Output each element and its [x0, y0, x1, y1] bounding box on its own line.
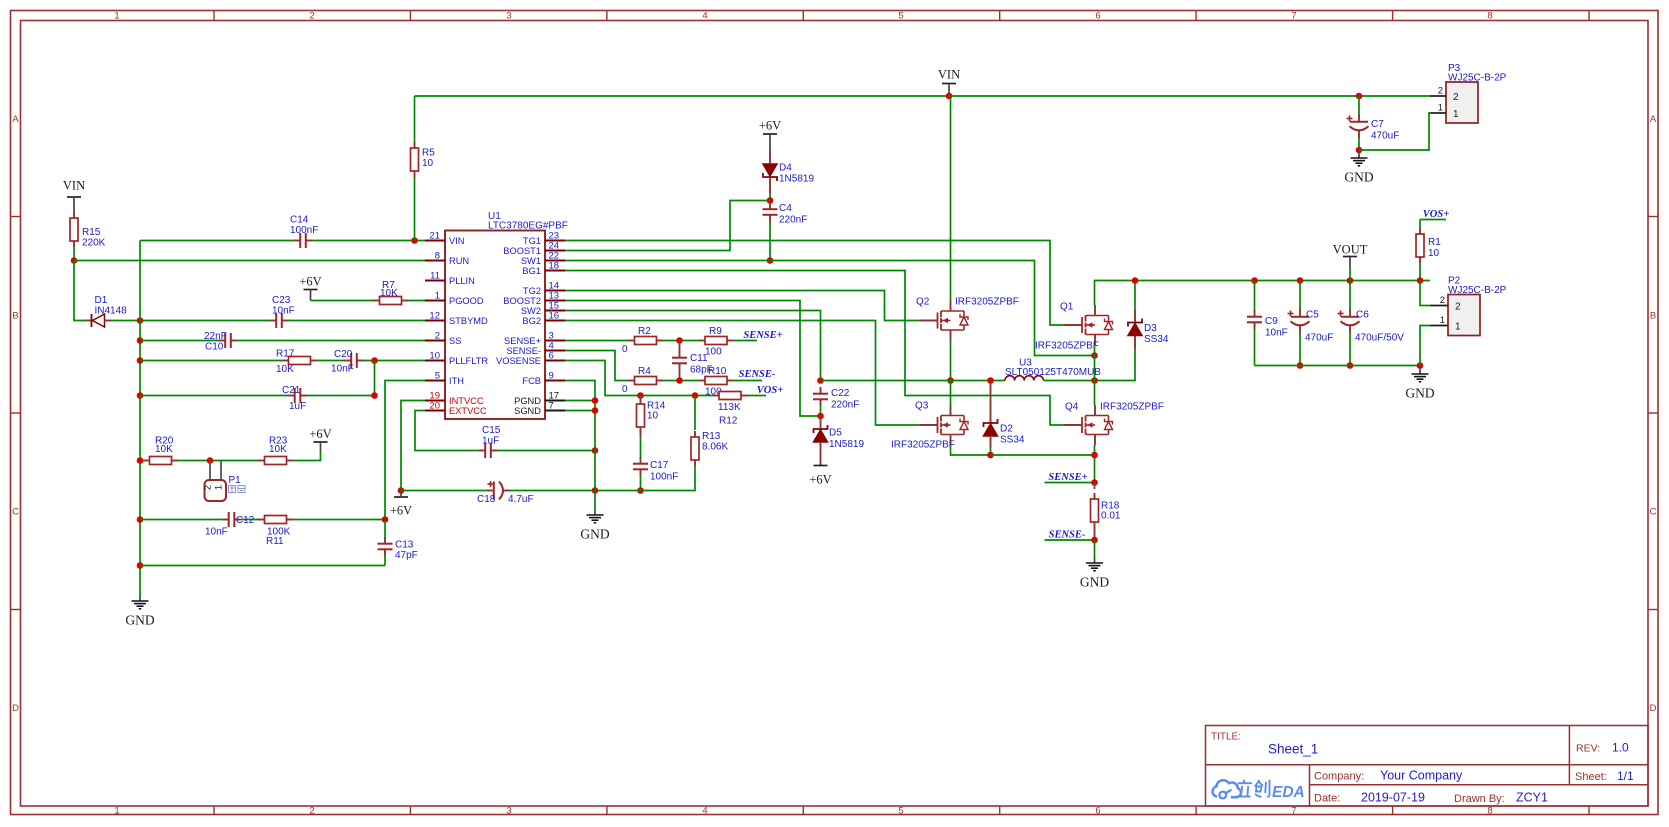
svg-text:ZCY1: ZCY1	[1516, 791, 1548, 805]
svg-text:Q1: Q1	[1060, 302, 1074, 313]
svg-text:R17: R17	[276, 349, 295, 360]
wire BG2 to Q3 gate	[565, 321, 920, 426]
ground symbol GND (C7)	[1344, 152, 1373, 185]
capacitor C9 10nF	[1247, 277, 1288, 365]
capacitor C11 68pF	[672, 341, 713, 381]
svg-text:8.06K: 8.06K	[702, 442, 728, 453]
svg-text:10: 10	[1428, 248, 1440, 259]
node C11 bottom junction	[663, 377, 699, 384]
U1 pin 10 PLLFLTR	[425, 351, 488, 366]
svg-text:D5: D5	[829, 428, 842, 439]
svg-text:+6V: +6V	[809, 473, 831, 487]
svg-text:D1: D1	[95, 295, 108, 306]
wire C21 row	[140, 395, 375, 397]
svg-text:PGND: PGND	[514, 396, 541, 406]
svg-text:5: 5	[898, 806, 903, 817]
node C18/PGND junction	[592, 487, 599, 494]
svg-text:10K: 10K	[380, 288, 398, 299]
transistor Q3 IRF3205ZPBF	[891, 401, 968, 451]
svg-text:10nF: 10nF	[272, 306, 295, 317]
svg-text:2: 2	[1455, 302, 1461, 313]
diode D1 IN4148	[85, 295, 127, 327]
U1 pin 6 VOSENSE	[496, 351, 565, 366]
wire Q2 source to SW node	[950, 341, 952, 381]
node Q4 source junction	[1091, 452, 1098, 459]
wire PLLFLTR row	[140, 360, 425, 362]
svg-text:5: 5	[898, 11, 903, 22]
svg-text:R9: R9	[709, 326, 722, 337]
wire Q1 source down to SW2	[1094, 345, 1096, 405]
svg-text:100nF: 100nF	[290, 225, 318, 236]
svg-text:2: 2	[435, 331, 440, 342]
svg-text:10nF: 10nF	[331, 364, 354, 375]
power flag VIN (top)	[938, 68, 960, 97]
resistor R1 10	[1416, 220, 1441, 281]
svg-text:D2: D2	[1000, 424, 1013, 435]
resistor R14 10	[637, 396, 666, 458]
svg-text:2: 2	[1440, 295, 1445, 306]
svg-text:SS34: SS34	[1000, 435, 1025, 446]
wire inductor right to D3 anode	[1044, 349, 1136, 381]
svg-text:470uF/50V: 470uF/50V	[1355, 333, 1404, 344]
svg-text:EDA: EDA	[1272, 784, 1305, 801]
svg-text:RUN: RUN	[449, 256, 469, 266]
capacitor C5 470uF	[1288, 277, 1334, 369]
svg-text:Q4: Q4	[1065, 402, 1079, 413]
node VIN rail junction	[946, 93, 953, 100]
wire SW2 to C22 top	[565, 311, 821, 381]
node SW row at Q2/Q3	[947, 377, 954, 384]
svg-text:C23: C23	[272, 295, 291, 306]
svg-text:Company:: Company:	[1314, 770, 1364, 782]
svg-text:BOOST2: BOOST2	[503, 296, 541, 306]
svg-text:113K: 113K	[718, 402, 741, 413]
svg-text:GND: GND	[1080, 575, 1109, 590]
node C7 bottom junction	[1356, 147, 1363, 154]
resistor R12 113K	[713, 392, 748, 427]
svg-text:47pF: 47pF	[395, 550, 418, 561]
svg-text:10: 10	[422, 158, 434, 169]
svg-text:2: 2	[203, 485, 214, 490]
diode D5 1N5819	[814, 416, 865, 465]
svg-text:IRF3205ZPBF: IRF3205ZPBF	[891, 440, 955, 451]
capacitor C13 47pF	[378, 520, 418, 566]
node ITH/C13 junction	[382, 516, 389, 523]
svg-text:INTVCC: INTVCC	[449, 396, 484, 406]
svg-text:220K: 220K	[82, 238, 106, 249]
svg-text:Drawn By:: Drawn By:	[1454, 793, 1505, 805]
svg-text:2: 2	[1453, 92, 1459, 103]
U1 pin 21 VIN	[425, 231, 465, 246]
svg-text:VIN: VIN	[938, 68, 960, 82]
svg-text:7: 7	[1291, 11, 1296, 22]
svg-text:STBYMD: STBYMD	[449, 316, 488, 326]
U1 pin 16 BG2	[522, 311, 565, 326]
svg-text:1: 1	[114, 11, 119, 22]
wire VIN to Q2 drain	[950, 96, 952, 301]
svg-text:Your Company: Your Company	[1380, 769, 1463, 783]
node GND rail at PLLFLTR row	[137, 357, 144, 364]
svg-text:10K: 10K	[276, 364, 294, 375]
inductor U3 SLT050125T470MUB	[1005, 358, 1101, 381]
svg-text:100nF: 100nF	[650, 472, 678, 483]
svg-text:3: 3	[506, 806, 511, 817]
node D3 cathode junction	[1132, 277, 1139, 284]
wire C18 row	[401, 490, 659, 492]
node C21 right junction	[371, 392, 378, 399]
U1 pin 17 PGND	[514, 391, 565, 406]
svg-text:470uF: 470uF	[1305, 333, 1333, 344]
wire BOOST2 to C22 bottom	[565, 301, 821, 417]
svg-text:Date:: Date:	[1314, 793, 1340, 805]
transistor Q2 IRF3205ZPBF	[916, 297, 1019, 341]
wire VIN pin row with C14	[140, 240, 425, 242]
node R13 top junction	[692, 392, 699, 399]
wire VIN top rail	[415, 95, 1431, 97]
wire Q3 source to bottom row	[951, 445, 991, 455]
svg-text:12: 12	[429, 311, 440, 322]
wire SW row to inductor	[821, 380, 1006, 382]
svg-text:VOS+: VOS+	[1423, 209, 1449, 220]
svg-text:10K: 10K	[155, 444, 173, 455]
wire INTVCC down to +6V node	[401, 401, 425, 491]
power flag +6V (PGOOD)	[299, 275, 321, 301]
node D2 bottom junction	[987, 452, 994, 459]
svg-text:1: 1	[1438, 103, 1443, 114]
svg-text:A: A	[1650, 114, 1657, 125]
node SW2 at Q1/Q4 column	[1091, 377, 1098, 384]
svg-text:PLLIN: PLLIN	[449, 276, 475, 286]
U1 pin 22 SW1	[521, 251, 565, 266]
svg-text:2: 2	[1438, 86, 1443, 97]
svg-text:GND: GND	[1344, 170, 1373, 185]
svg-text:1N5819: 1N5819	[779, 174, 814, 185]
wire RUN row	[74, 260, 425, 262]
svg-text:C7: C7	[1371, 119, 1384, 130]
U1 pin 24 BOOST1	[503, 241, 565, 256]
svg-text:21: 21	[429, 231, 440, 242]
svg-text:220nF: 220nF	[779, 215, 807, 226]
U1 pin 3 SENSE+	[504, 331, 565, 346]
resistor R9 100	[699, 326, 734, 358]
svg-text:3: 3	[506, 11, 511, 22]
node D4/C4/BOOST1 junction	[767, 197, 774, 204]
svg-text:P1: P1	[229, 475, 242, 486]
svg-text:+6V: +6V	[299, 275, 321, 289]
svg-text:REV:: REV:	[1576, 743, 1600, 755]
capacitor C6 470uF/50V	[1338, 277, 1405, 369]
svg-text:Q2: Q2	[916, 297, 930, 308]
svg-text:R15: R15	[82, 227, 101, 238]
svg-text:C10: C10	[205, 342, 224, 353]
svg-text:0: 0	[622, 344, 628, 355]
wire GND rail vertical (left)	[139, 241, 141, 596]
capacitor C4 220nF	[763, 203, 808, 261]
U1 pin 13 BOOST2	[503, 291, 565, 306]
diode D2 SS34	[984, 377, 1025, 455]
wire shunt to GND	[1094, 540, 1096, 557]
svg-text:D4: D4	[779, 163, 792, 174]
svg-text:SS: SS	[449, 336, 461, 346]
svg-text:C4: C4	[779, 203, 792, 214]
svg-text:C17: C17	[650, 460, 669, 471]
capacitor C15 1uF	[479, 425, 501, 458]
wire C20 junction down to C21	[374, 361, 376, 396]
wire VIN net down-left	[74, 261, 85, 321]
wire output GND row	[1255, 365, 1421, 367]
node C17 bottom junction	[637, 487, 644, 494]
svg-text:SENSE+: SENSE+	[1048, 472, 1087, 483]
svg-text:R13: R13	[702, 431, 721, 442]
svg-text:R12: R12	[719, 416, 738, 427]
svg-text:FCB: FCB	[522, 376, 541, 386]
svg-text:C13: C13	[395, 540, 414, 551]
svg-text:D: D	[1650, 703, 1657, 714]
capacitor C12 10nF	[205, 512, 255, 538]
node GND rail at C12 row	[137, 516, 144, 523]
capacitor C17 100nF	[633, 457, 678, 491]
svg-text:R11: R11	[266, 536, 284, 547]
svg-text:D: D	[12, 703, 19, 714]
resistor R15	[70, 212, 106, 249]
node C7 top junction	[1356, 93, 1363, 100]
svg-text:1/1: 1/1	[1617, 769, 1634, 783]
svg-text:ITH: ITH	[449, 376, 464, 386]
wire R7 to pin PGOOD	[408, 300, 425, 302]
node GND rail bottom-left	[137, 562, 144, 569]
svg-text:C11: C11	[690, 353, 708, 364]
node R5 bottom junction	[411, 237, 418, 244]
svg-text:10nF: 10nF	[205, 527, 228, 538]
title block	[1206, 726, 1649, 807]
jumper P1	[203, 461, 246, 502]
wire VOSENSE pin to divider	[565, 361, 713, 396]
wire EXTVCC to C15	[415, 411, 479, 451]
svg-text:6: 6	[1095, 11, 1100, 22]
resistor R5 10	[411, 96, 436, 241]
power flag +6V (R23)	[309, 427, 331, 451]
wire R20 to P1 junction	[178, 460, 258, 462]
svg-text:1.0: 1.0	[1612, 741, 1629, 755]
node shunt top junction	[1091, 479, 1098, 486]
svg-text:C6: C6	[1356, 310, 1369, 321]
resistor R7 10K	[373, 280, 408, 305]
svg-text:D3: D3	[1144, 323, 1157, 334]
svg-text:R2: R2	[638, 326, 651, 337]
node Q1 source junction	[1091, 352, 1098, 359]
svg-text:SLT050125T470MUB: SLT050125T470MUB	[1005, 367, 1101, 378]
svg-text:VIN: VIN	[63, 179, 85, 193]
U1 pin 7 SGND	[514, 401, 565, 416]
wire P2 pin 1	[1420, 326, 1431, 366]
U1 pin 8 RUN	[425, 251, 469, 266]
svg-text:GND: GND	[580, 527, 609, 542]
wire PGND to column	[565, 397, 598, 404]
node C11 top junction	[663, 337, 699, 344]
wire D1 to C23	[111, 320, 270, 322]
wire FCB/PGND/SGND column	[565, 381, 595, 510]
node C4/SW1 junction	[767, 257, 774, 264]
power flag +6V (D5)	[809, 466, 831, 487]
svg-text:+6V: +6V	[309, 427, 331, 441]
wire BG1 to Q4 gate	[565, 271, 1065, 426]
svg-text:2019-07-19: 2019-07-19	[1361, 791, 1425, 805]
node +6V / C18 junction	[398, 487, 405, 494]
svg-text:Sheet:: Sheet:	[1575, 771, 1607, 783]
resistor R13 8.06K	[659, 396, 728, 491]
power flag VIN (left)	[63, 179, 85, 213]
capacitor C10 22nF	[204, 331, 238, 353]
power flag +6V (C18)	[390, 491, 412, 518]
svg-text:10: 10	[429, 351, 440, 362]
node R14 top junction	[637, 392, 644, 399]
svg-text:B: B	[12, 310, 18, 321]
svg-text:1uF: 1uF	[482, 436, 499, 447]
wire C15 to PGND column	[498, 450, 596, 452]
svg-text:BG2: BG2	[522, 316, 541, 326]
net label VOS+ (R12)	[748, 385, 784, 396]
svg-text:16: 16	[549, 311, 560, 322]
wire P2 pin 2	[1420, 281, 1431, 306]
power flag VOUT	[1333, 243, 1368, 281]
wire bottom-left GND row	[140, 565, 385, 567]
svg-text:PGOOD: PGOOD	[449, 296, 484, 306]
node C20 right junction	[371, 357, 378, 364]
ground symbol GND (output)	[1405, 368, 1434, 401]
U1 pin 15 SW2	[521, 301, 565, 316]
U1 pin 9 FCB	[522, 371, 565, 386]
svg-text:9: 9	[549, 371, 554, 382]
svg-text:20: 20	[429, 401, 440, 412]
svg-text:SW1: SW1	[521, 256, 541, 266]
svg-text:C12: C12	[236, 515, 255, 526]
svg-text:R10: R10	[708, 366, 727, 377]
svg-text:GND: GND	[1405, 386, 1434, 401]
resistor R18 0.01	[1091, 483, 1121, 541]
transistor Q1 IRF3205ZPBF	[1035, 302, 1113, 352]
svg-text:EXTVCC: EXTVCC	[449, 406, 487, 416]
wire Q4 source to bottom row	[1094, 445, 1096, 483]
svg-text:WJ25C-B-2P: WJ25C-B-2P	[1448, 285, 1507, 296]
U1 pin 12 STBYMD	[425, 311, 488, 326]
svg-text:Sheet_1: Sheet_1	[1268, 742, 1318, 757]
node GND rail at R20 row	[137, 457, 144, 464]
resistor R20 10K	[143, 436, 178, 465]
node output GND at P2	[1417, 362, 1424, 369]
svg-text:BOOST1: BOOST1	[503, 246, 541, 256]
wire SS row	[140, 340, 425, 342]
capacitor C20 10nF	[331, 349, 364, 375]
wire SW1 to Q1 source	[565, 261, 1095, 356]
svg-text:C22: C22	[831, 388, 850, 399]
wire R15 to RUN node	[73, 247, 75, 261]
net label SENSE+ (R9)	[734, 330, 783, 341]
svg-text:470uF: 470uF	[1371, 131, 1399, 142]
svg-text:2: 2	[309, 11, 314, 22]
connector P3 WJ25C-B-2P	[1430, 63, 1507, 123]
svg-text:SS34: SS34	[1144, 334, 1169, 345]
svg-text:1: 1	[214, 485, 225, 490]
svg-text:7: 7	[549, 401, 554, 412]
svg-text:10nF: 10nF	[1265, 328, 1288, 339]
svg-text:VOUT: VOUT	[1333, 243, 1368, 257]
svg-text:10: 10	[647, 411, 659, 422]
svg-text:+6V: +6V	[390, 504, 412, 518]
capacitor C18 4.7uF	[477, 481, 534, 505]
capacitor C21 1uF	[282, 385, 307, 412]
svg-text:C5: C5	[1306, 310, 1319, 321]
node C15 right junction	[592, 447, 599, 454]
ground symbol GND (shunt)	[1080, 557, 1109, 590]
svg-text:5: 5	[435, 371, 440, 382]
node R1 bottom junction	[1417, 277, 1424, 284]
svg-text:C21: C21	[282, 385, 301, 396]
capacitor C7 470uF	[1347, 96, 1400, 150]
wire C23 to pin STBYMD	[289, 320, 426, 322]
svg-text:TG1: TG1	[523, 236, 541, 246]
wire R23 to +6V	[293, 451, 321, 461]
capacitor C22 220nF	[813, 387, 859, 416]
svg-text:Q3: Q3	[915, 401, 929, 412]
svg-text:4.7uF: 4.7uF	[508, 494, 534, 505]
svg-text:B: B	[1650, 310, 1656, 321]
net label SENSE+ (shunt top)	[1045, 472, 1095, 483]
node GND rail at STBYMD row	[137, 317, 144, 324]
node GND rail at SS row	[137, 337, 144, 344]
svg-text:11: 11	[430, 271, 440, 282]
svg-text:IRF3205ZPBF: IRF3205ZPBF	[1035, 341, 1099, 352]
svg-text:PLLFLTR: PLLFLTR	[449, 356, 488, 366]
svg-text:A: A	[12, 114, 19, 125]
svg-text:SW2: SW2	[521, 306, 541, 316]
svg-text:SENSE+: SENSE+	[743, 330, 782, 341]
U1 pin 19 INTVCC	[425, 391, 484, 406]
node C22 bottom junction	[817, 413, 824, 420]
resistor R11 100K	[258, 516, 293, 548]
wire ITH pin down to R11 row	[385, 381, 425, 520]
wire Q1 drain to VOUT rail	[1095, 281, 1431, 306]
svg-text:C9: C9	[1265, 316, 1278, 327]
U1 pin 2 SS	[425, 331, 461, 346]
svg-text:SGND: SGND	[514, 406, 541, 416]
resistor R2 0	[622, 326, 663, 355]
svg-text:4: 4	[702, 11, 707, 22]
svg-text:R5: R5	[422, 148, 435, 159]
svg-text:C14: C14	[290, 215, 309, 226]
svg-text:TITLE:: TITLE:	[1211, 732, 1241, 743]
capacitor C14 100nF	[290, 215, 318, 249]
svg-text:220nF: 220nF	[831, 400, 859, 411]
svg-text:C: C	[1650, 507, 1657, 518]
svg-text:18: 18	[549, 261, 560, 272]
U1 pin 11 PLLIN	[425, 271, 475, 286]
op-amp U1 LTC3780EG#PBF controller	[445, 211, 568, 419]
capacitor C23 10nF	[270, 295, 295, 328]
U1 pin 18 BG1	[522, 261, 565, 276]
node C22 top junction	[817, 377, 824, 384]
svg-text:SENSE-: SENSE-	[506, 346, 541, 356]
svg-text:8: 8	[435, 251, 440, 262]
svg-text:10K: 10K	[269, 444, 287, 455]
wire SENSE+ pin to R2	[565, 340, 628, 342]
EasyEDA logo	[1213, 780, 1305, 801]
svg-text:C20: C20	[334, 349, 353, 360]
resistor R10 100	[699, 366, 734, 398]
wire TG2 to Q2 gate	[565, 291, 920, 321]
wire +6V to R7	[311, 300, 374, 302]
svg-text:0.01: 0.01	[1101, 511, 1121, 522]
U1 pin 23 TG1	[523, 231, 565, 246]
